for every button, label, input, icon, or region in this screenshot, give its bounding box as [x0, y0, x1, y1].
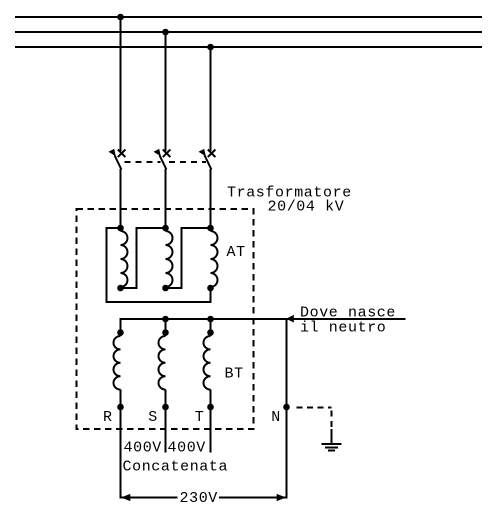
svg-text:Concatenata: Concatenata [123, 459, 229, 476]
svg-text:il neutro: il neutro [300, 320, 386, 337]
svg-text:AT: AT [227, 244, 246, 261]
svg-text:400V: 400V [168, 440, 206, 457]
svg-text:230V: 230V [180, 490, 218, 507]
svg-text:400V: 400V [124, 440, 162, 457]
svg-text:S: S [148, 409, 158, 426]
svg-text:T: T [195, 409, 205, 426]
svg-text:BT: BT [225, 366, 244, 383]
svg-text:N: N [271, 409, 281, 426]
svg-text:20/04 kV: 20/04 kV [268, 199, 345, 216]
svg-text:R: R [103, 409, 113, 426]
